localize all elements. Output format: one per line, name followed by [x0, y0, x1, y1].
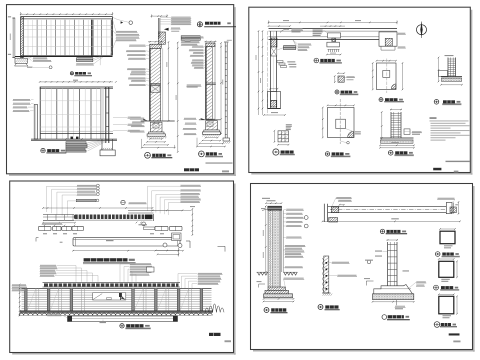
S3 wall minor posts	[35, 289, 37, 311]
S1 boxed note table below top elevation	[77, 58, 93, 60]
S3 top-right label cluster	[181, 185, 201, 186]
sheet 2 border (top-right drawing sheet)	[471, 10, 473, 175]
S1 mid column hatched shaft	[150, 48, 161, 121]
S3 stepped dim elbows	[156, 250, 179, 252]
S3 detail circles 4 and 5	[163, 243, 167, 247]
S1 top elevation baseline	[21, 54, 113, 56]
S4 footing section column ladder	[387, 242, 389, 287]
S2 plan text block left of protrusion	[313, 30, 323, 31]
S2 plan left axis line	[267, 31, 269, 115]
S1 right column hatched shaft	[206, 47, 213, 119]
S4 wall base slab	[264, 294, 293, 298]
S2 footer sheet number	[433, 168, 441, 171]
S1 right leader labels of top elevation	[116, 31, 137, 32]
S1 right column top dim ticks	[205, 41, 217, 43]
S2 vent grid labels	[286, 124, 292, 125]
S2 center footing section ladder	[390, 112, 392, 138]
S3 wall major posts	[25, 289, 28, 311]
sheet 4 border (bottom-right drawing sheet)	[473, 186, 475, 352]
S4 rail right end post	[446, 203, 452, 214]
S2 upper-right footing plan title	[379, 98, 383, 102]
S1 elevation2 title 1:40	[41, 148, 45, 152]
S2 plan left band boxed label	[284, 46, 296, 48]
S3 marks below beam end	[136, 222, 138, 224]
S3 assembly2 left label cluster	[40, 265, 56, 266]
S4 reinforcement label	[403, 270, 410, 271]
S2 upper-right ladder title	[434, 100, 439, 105]
S2 plan left vertical dim lines	[262, 31, 264, 115]
S2 plan right end box with hatched column	[379, 32, 397, 46]
S2 center footing title	[388, 151, 393, 156]
S2 plan secondary dim ticks	[269, 25, 291, 27]
S1 general note line	[206, 162, 233, 163]
S3 small label box right of links	[144, 227, 155, 230]
S3 top-left label cluster	[77, 185, 96, 186]
S4 footing section left dims	[375, 251, 382, 252]
S1 top elevation beam band	[21, 16, 113, 18]
S1 gutter detail hatched wall	[158, 32, 165, 44]
S3 hedge scallop row	[19, 313, 212, 315]
S4 wall right face lines	[281, 210, 283, 272]
S3 title assembly diagram 1:10	[84, 258, 128, 261]
S4 column square detail B	[439, 296, 454, 314]
S4 wall insulation dotted strip	[270, 211, 272, 213]
S1 mid column title: section 1:15	[145, 152, 151, 158]
S4 rail bottom dim	[323, 220, 461, 222]
S3 assembly2 right label cluster	[198, 273, 222, 274]
S3 dim segment right of beam	[153, 209, 192, 211]
S4 rail band	[328, 205, 447, 207]
S3 wall left dim pole	[19, 284, 21, 316]
S4 column square detail 0 (top)	[440, 231, 455, 244]
S3 link row label	[42, 223, 62, 224]
S2 plan top band (ring beam)	[269, 28, 398, 30]
S2 plan center protrusion with hatched column	[328, 33, 341, 38]
S4 wall bottom label	[285, 266, 303, 267]
S4 wall footing dims	[264, 298, 294, 300]
S2 vent grid detail dims	[273, 131, 275, 142]
S1 mid column left labels lower	[130, 118, 144, 119]
S3 wall brace diagonals	[27, 289, 36, 311]
S1 right column left labels	[192, 46, 203, 47]
S3 wall gate opening	[93, 293, 126, 300]
S3 assembly beam top flashing	[128, 210, 154, 212]
S2 upper-right footing plan detail	[377, 63, 397, 90]
S3 top-left leader elbows	[47, 185, 77, 187]
S3 vertical dim right	[191, 209, 193, 235]
sheet 1 border (top-left drawing sheet)	[234, 7, 236, 176]
S2 column plan corner quarter detail	[348, 131, 354, 137]
S1 left column footing	[15, 58, 27, 63]
S4 wall cap block	[268, 206, 282, 210]
S2 upper-right ladder baseline and ground	[441, 76, 462, 78]
S3 foundation strip	[68, 316, 178, 322]
S3 assembly2 nested box	[147, 267, 155, 272]
S1 embed-plate mark with circle	[27, 67, 33, 68]
S1 elevation2 left post	[34, 105, 37, 140]
S4 wall cap top dims	[266, 202, 282, 204]
S4 square 0 title 1:20	[435, 252, 440, 257]
S4 footing trapezoid	[374, 285, 413, 294]
S2 column plan dims	[322, 108, 324, 138]
S1 mid column footing	[147, 134, 165, 136]
sheet 3 border (bottom-left drawing sheet)	[234, 184, 236, 355]
S3 gate statue	[119, 293, 122, 297]
S1 gutter boxed rows	[181, 36, 200, 38]
S2 small column detail square	[338, 76, 344, 82]
S1 right column white strip	[212, 47, 215, 119]
S3 cap band left corner mark	[36, 237, 39, 239]
S3 gate ramp and blocks	[93, 294, 102, 300]
S4 wall strip labels	[332, 262, 349, 263]
S3 assembly2 beam	[43, 281, 181, 283]
S1 top elevation title: elevation 1:40	[70, 72, 73, 75]
S3 wall elevation top edge	[22, 288, 212, 290]
S1 mid column top dim ticks	[148, 41, 163, 43]
S2 plan center protrusion lower part	[327, 42, 340, 47]
S2 plan left band bottom dim	[264, 114, 285, 116]
S3 link row ticks and size texts	[44, 225, 45, 226]
S3 assembly2 center label cluster	[130, 263, 151, 264]
S1 elevation2 anchor blocks on baseline	[71, 137, 74, 139]
S1 gutter detail dim ticks	[152, 15, 168, 17]
S1 right column dim elbows below	[206, 137, 218, 139]
S3 top-right leader elbows	[148, 185, 181, 187]
S4 wall right labels	[286, 209, 303, 210]
S1 gutter detail arrow mark	[164, 28, 169, 31]
S4 wall strip fastener dots	[326, 262, 328, 264]
S1 right column top label rows	[185, 36, 203, 37]
S1 mid column top cap block	[150, 44, 161, 48]
S2 plan left band U-end footing	[268, 92, 281, 109]
S4 wall left elbow dims	[259, 283, 265, 285]
S1 right column base plate	[204, 130, 220, 132]
S4 wall strip title 1:20	[318, 305, 323, 310]
S4 rail top labels	[336, 197, 351, 198]
S3 shrub right large	[205, 304, 224, 313]
S2 notes block	[430, 117, 437, 119]
S3 wall left margin labels	[12, 284, 26, 285]
S2 plan left vertical band	[270, 31, 272, 108]
S4 wall footing steps	[268, 287, 286, 290]
S1 ladder base	[223, 138, 230, 141]
S1 detail mark 2 on top elevation	[121, 21, 124, 23]
S4 wall section title 1:20	[264, 308, 269, 313]
S1 mid column X block	[151, 86, 160, 93]
S3 dim under beam left	[43, 222, 75, 224]
S1 top elevation left column (hatched)	[21, 17, 24, 58]
S2 plan left band top hatched column	[271, 38, 277, 47]
S4 footing bottom leader	[395, 300, 397, 306]
S4 wall concrete core	[273, 210, 281, 287]
S4 wall strip section mark	[367, 260, 371, 264]
S1 elevation2 top dim line	[40, 81, 113, 83]
S1 right column right dim lines	[220, 43, 222, 134]
S1 top elevation dimension line	[21, 13, 113, 15]
S1 ladder rungs	[225, 45, 227, 47]
S2 north arrow	[417, 25, 427, 35]
S3 assembly dim line	[43, 207, 153, 209]
S1 top elevation mullions	[36, 20, 38, 56]
S4 rail detail left support	[323, 204, 325, 222]
S4 ground zigzag marks	[258, 272, 261, 275]
S2 column plan bottom leader	[340, 141, 346, 143]
S1 elevation2 top band	[40, 86, 113, 88]
S3 right bracket mark	[218, 245, 226, 247]
S1 footer: sheet name and number	[184, 168, 199, 171]
S4 lower-left hatched wall strip detail	[323, 258, 324, 292]
S4 wall layer list labels	[285, 245, 305, 246]
S4 hollow brick label	[286, 237, 301, 238]
S1 mid column right dim lines	[168, 42, 170, 121]
S2 column base plan detail	[328, 108, 355, 138]
S2 upper-right column ladder detail	[447, 58, 449, 77]
S1 right column joint band	[206, 82, 216, 84]
S1 vertical dim pole at far left	[13, 18, 15, 58]
S2 vent grid title	[273, 149, 279, 155]
S1 mid column base plate	[149, 132, 165, 134]
S4 footing dims below	[373, 301, 414, 303]
S4 footing left elbow dims	[366, 280, 373, 282]
S1 elevation2 mullions	[56, 89, 58, 139]
S4 rail title 1:20	[380, 229, 384, 233]
S1 ladder rails	[224, 43, 226, 139]
S2 plan left band stepped blocks	[277, 61, 283, 63]
S1 mid column joint band	[150, 82, 161, 84]
S4 wall section body	[265, 206, 267, 272]
S2 center footing baseline and base	[380, 137, 414, 139]
S1 elevation2 right labels	[128, 117, 141, 118]
S4 footing base slab	[373, 294, 414, 300]
S1 elevation2 light rails	[40, 100, 103, 102]
S1 gutter detail vertical channel	[157, 18, 159, 38]
S4 footing right label	[284, 278, 304, 279]
S3 assembly beam left part	[43, 214, 74, 216]
S1 mid column left labels upper	[129, 45, 145, 46]
S2 plan left band lower blocks	[271, 92, 277, 101]
S3 footer	[209, 333, 221, 336]
S3 assembly beam dark segmented part	[74, 215, 153, 220]
S1 mid column dim elbows below	[150, 138, 162, 140]
S1 mid column pedestal	[150, 122, 162, 132]
S4 footing slope labels	[416, 281, 426, 282]
S4 column square detail A	[439, 261, 454, 277]
S3 single label above beam	[129, 202, 147, 203]
S4 wall strip base	[322, 292, 331, 294]
S1 right column top cap block	[206, 43, 215, 47]
S1 right column title: section 1:15	[199, 151, 205, 157]
S4 footing section title 1:20	[382, 315, 387, 320]
S4 square B title 1:8	[434, 322, 440, 328]
S1 right column footing	[202, 132, 220, 134]
S1 elevation2 baseline	[31, 138, 117, 140]
S1 elevation2 boxed labels under baseline	[66, 142, 86, 144]
S4 footer	[449, 333, 460, 335]
S4 rail hatched block left	[331, 207, 339, 213]
S1 right column ground line	[199, 119, 220, 121]
S4 rail support base bracket	[329, 218, 338, 223]
S1 elevation2 left margin labels	[13, 99, 30, 100]
S1 right column pedestal	[206, 121, 218, 130]
S3 wall elevation title 1:30	[120, 324, 124, 328]
S2 plan title 1:50	[314, 58, 319, 63]
S2 column plan labels	[355, 131, 361, 132]
S3 section mark circle 2	[121, 200, 125, 204]
S1 title: vent cap detail 1:10	[197, 22, 202, 27]
S4 wall cap slope mark	[261, 208, 265, 209]
S1 elevation2 right column band	[101, 89, 105, 139]
S1 ladder label	[227, 40, 232, 41]
S2 labels below top band	[298, 44, 311, 45]
S3 cap band dim line	[73, 250, 183, 252]
S1 right column lower-left labels	[187, 84, 201, 85]
S1 top elevation light rails	[23, 25, 112, 27]
S2 vent grid detail square	[278, 131, 289, 142]
S1 elevation2 footing right	[101, 139, 103, 150]
S2 bottom-right note line	[446, 161, 471, 162]
S3 wall course lines	[22, 290, 212, 292]
S2 plan left corner hook and labels	[280, 29, 289, 32]
S4 square A title 1:20	[434, 285, 439, 290]
S3 wall baseline	[20, 310, 213, 312]
S3 connection detail boxes	[172, 233, 181, 241]
S3 concrete cap band	[73, 238, 180, 246]
S2 small column title	[335, 90, 339, 94]
S2 plan left band braced block	[271, 47, 277, 56]
S1 elevation2 bottom rail bands	[40, 130, 113, 132]
S2 plan top dimension line	[269, 21, 398, 23]
S3 link rows (channel sections)	[39, 226, 52, 230]
S1 mid column ground line	[141, 120, 175, 122]
S3 bracket mark	[186, 240, 190, 242]
S3 assembly beam end cap	[145, 215, 153, 220]
S3 foundation labels	[48, 314, 62, 315]
S2 column plan title 1:10	[325, 152, 329, 156]
S1 leader labels below top elevation	[33, 57, 47, 58]
S2 column plan axis line	[339, 99, 341, 144]
S1 gutter detail leader labels	[171, 17, 191, 18]
